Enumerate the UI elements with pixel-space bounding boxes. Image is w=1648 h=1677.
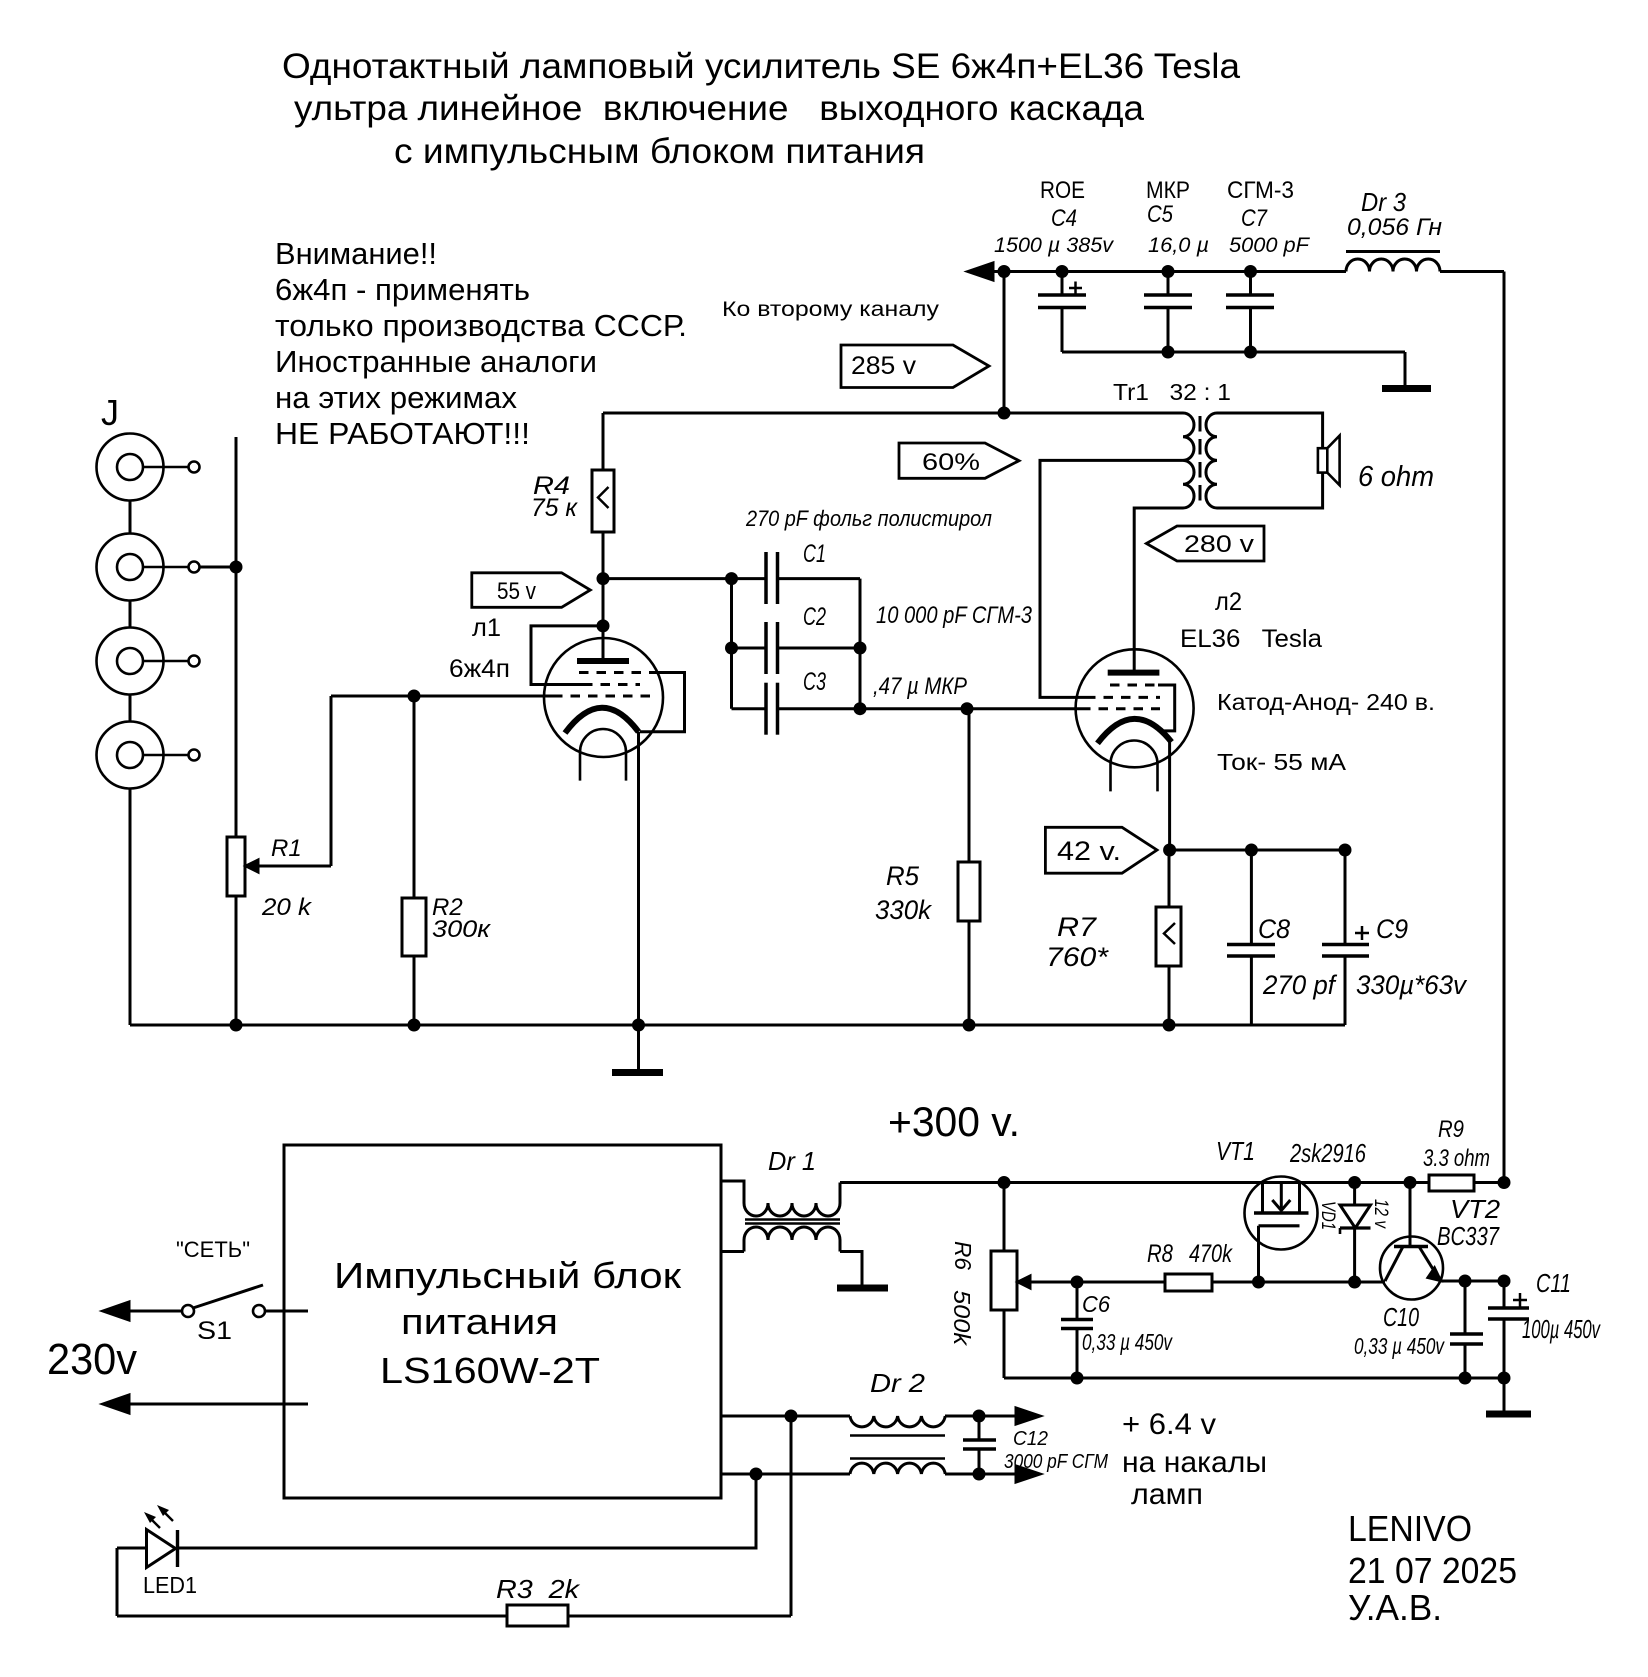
svg-text:12 v: 12 v	[1370, 1199, 1391, 1229]
svg-text:230v: 230v	[47, 1335, 137, 1384]
wire: VT2 emitter to output rail	[1440, 1280, 1504, 1283]
svg-text:C3: C3	[803, 668, 826, 696]
svg-text:R6: R6	[950, 1241, 976, 1270]
wire: right rail through C11	[1503, 1281, 1506, 1308]
svg-text:ультра линейное включение в: ультра линейное включение выходного каск…	[294, 89, 1145, 128]
svg-text:330k: 330k	[875, 895, 932, 925]
svg-text:C1: C1	[803, 540, 826, 568]
svg-text:LS160W-2T: LS160W-2T	[380, 1350, 600, 1391]
svg-text:C10: C10	[1383, 1302, 1419, 1332]
heater	[580, 729, 626, 781]
wire: filter ground bus	[1062, 351, 1405, 354]
inductor Dr 2	[721, 1368, 1040, 1482]
svg-text:3000 pF СГМ: 3000 pF СГМ	[1004, 1451, 1108, 1473]
svg-text:R8: R8	[1147, 1240, 1173, 1268]
junction: g2 strap tap	[597, 619, 610, 632]
transistor VT2 BC337	[1380, 1183, 1501, 1300]
Dr2 bottom winding	[850, 1463, 945, 1474]
wire: PSU bottom out	[721, 1250, 744, 1253]
svg-text:НЕ РАБОТАЮТ!!!: НЕ РАБОТАЮТ!!!	[275, 416, 530, 451]
svg-text:только производства СССР.: только производства СССР.	[275, 308, 687, 343]
Tr1 primary winding	[1183, 413, 1194, 508]
svg-text:VT1: VT1	[1216, 1136, 1255, 1166]
wire: ultralinear 60% tap	[1040, 460, 1183, 697]
wire: right vertical +300v rail (top)	[1503, 272, 1506, 1183]
wire: primary bottom to anode of л2	[1134, 508, 1183, 673]
cathode arc	[565, 708, 639, 733]
svg-text:Ток- 55 мА: Ток- 55 мА	[1217, 749, 1347, 775]
capacitor C3	[732, 668, 861, 735]
grid g3 (dashed)	[1110, 684, 1160, 687]
anode plate bar	[1108, 670, 1160, 676]
Dr1 core	[745, 1218, 840, 1220]
inductor Dr 3	[1346, 187, 1442, 272]
svg-text:с импульсным блоком питания: с импульсным блоком питания	[394, 132, 925, 171]
svg-text:10 000 pF СГМ-3: 10 000 pF СГМ-3	[876, 602, 1033, 629]
svg-text:LENIVO: LENIVO	[1348, 1508, 1472, 1549]
svg-text:C4: C4	[1051, 205, 1077, 232]
grid g1 (dashed)	[553, 695, 651, 698]
junction	[998, 265, 1011, 278]
title	[282, 47, 1241, 171]
wire: input bus vertical	[235, 437, 238, 1025]
wire: Dr3 output to right rail	[1440, 270, 1504, 273]
node flag: 60%	[899, 443, 1019, 478]
transistor VT1 2sk2916	[1216, 1136, 1366, 1282]
tube л1 6ж4п	[449, 614, 685, 1025]
svg-text:л2: л2	[1215, 588, 1242, 616]
wire: common ground rail	[130, 1024, 1345, 1027]
svg-text:Катод-Анод- 240 в.: Катод-Анод- 240 в.	[1217, 689, 1435, 715]
wire: S1 to PSU	[265, 1310, 308, 1313]
svg-text:330µ*63v: 330µ*63v	[1356, 970, 1467, 1000]
svg-text:500k: 500k	[949, 1290, 975, 1347]
zener diode VD1 12v	[1317, 1183, 1391, 1283]
wire: g3 to cathode tab	[1158, 685, 1175, 731]
resistor R4	[531, 413, 614, 579]
wire: 285v rail down to transformer node	[1003, 272, 1006, 414]
ground	[1382, 385, 1431, 392]
resistor R5	[875, 709, 980, 1025]
svg-text:СГМ-3: СГМ-3	[1227, 177, 1294, 204]
svg-text:C6: C6	[1082, 1291, 1110, 1317]
svg-text:60%: 60%	[922, 449, 980, 476]
svg-text:У.А.В.: У.А.В.	[1348, 1587, 1442, 1628]
wire: J2 hot to input bus	[200, 566, 237, 569]
capacitor C10	[1354, 1281, 1483, 1378]
svg-text:J: J	[101, 392, 119, 433]
svg-text:5000 pF: 5000 pF	[1229, 234, 1310, 257]
svg-text:S1: S1	[197, 1317, 232, 1345]
wire: heater feed B from PSU	[721, 1473, 850, 1476]
svg-text:VD1: VD1	[1317, 1201, 1338, 1230]
switch S1	[182, 1285, 265, 1345]
capacitor C6	[1061, 1282, 1173, 1378]
svg-text:21 07 2025: 21 07 2025	[1348, 1550, 1517, 1591]
capacitor C9	[1322, 850, 1467, 1025]
node flag: 280 v	[1146, 526, 1264, 561]
svg-text:"СЕТЬ": "СЕТЬ"	[176, 1237, 250, 1262]
wire: heater out B with arrow	[945, 1473, 1020, 1476]
svg-text:Однотактный ламповый усилитель: Однотактный ламповый усилитель SE 6ж4п+E…	[282, 47, 1241, 86]
resistor R7	[1046, 850, 1181, 1025]
svg-text:МКР: МКР	[1146, 177, 1190, 204]
wire: heater feed A from PSU	[721, 1415, 850, 1418]
grid g3 (dashed)	[579, 671, 651, 674]
LED LED1	[117, 1505, 197, 1598]
ground	[612, 1025, 663, 1073]
wire: mains feed 1 with arrow	[103, 1302, 129, 1320]
node: anode of л1	[597, 572, 610, 585]
inductor Dr 1	[721, 1146, 888, 1288]
signature block	[1348, 1508, 1517, 1628]
wire: heater out A with arrow	[945, 1415, 1020, 1418]
svg-text:R1: R1	[271, 835, 302, 862]
svg-text:470k: 470k	[1189, 1240, 1233, 1268]
grid g2 (dashed)	[583, 683, 640, 686]
wire: mains feed 2 with arrow	[103, 1395, 129, 1413]
wire: PSU top out	[721, 1181, 744, 1203]
svg-text:л1: л1	[472, 614, 501, 642]
svg-text:ROE: ROE	[1040, 177, 1085, 204]
svg-text:16,0 µ: 16,0 µ	[1148, 234, 1209, 257]
svg-text:6ж4п: 6ж4п	[449, 655, 510, 683]
svg-text:0,056 Гн: 0,056 Гн	[1347, 214, 1442, 241]
anode plate bar	[577, 658, 629, 664]
svg-text:6 ohm: 6 ohm	[1358, 461, 1434, 493]
capacitor C7	[1226, 177, 1310, 359]
Dr1 top winding	[744, 1203, 840, 1216]
svg-text:Tr1 32 : 1: Tr1 32 : 1	[1113, 379, 1231, 405]
heater	[1111, 740, 1158, 791]
wire: triode-strap g2 to anode	[531, 626, 603, 685]
grid g2 (dashed)	[1086, 696, 1160, 699]
svg-text:55 v: 55 v	[497, 578, 536, 605]
capacitor C11	[1488, 1268, 1601, 1344]
svg-text:1500 µ 385v: 1500 µ 385v	[994, 234, 1115, 257]
svg-text:6ж4п - применять: 6ж4п - применять	[275, 272, 530, 307]
wire: grid of tube л1	[331, 695, 553, 698]
svg-text:C12: C12	[1013, 1428, 1048, 1450]
power supply module LS160W-2T	[284, 1145, 721, 1498]
wire: cathode of л2 down	[1168, 740, 1171, 850]
svg-text:C2: C2	[803, 603, 826, 631]
wire: secondary loop to speaker	[1217, 413, 1323, 508]
svg-text:Dr 3: Dr 3	[1361, 187, 1406, 217]
svg-text:300к: 300к	[432, 916, 492, 943]
potentiometer R6	[949, 1183, 1165, 1379]
Dr2 top winding	[850, 1416, 945, 1427]
svg-text:20 k: 20 k	[261, 894, 313, 921]
svg-text:270 pf: 270 pf	[1262, 970, 1337, 1000]
wire: 285v rail	[991, 270, 1346, 273]
svg-text:VT2: VT2	[1450, 1194, 1501, 1224]
wire: g3 to cathode tab	[640, 673, 685, 732]
svg-text:EL36 Tesla: EL36 Tesla	[1180, 625, 1322, 653]
resistor R3 2k	[117, 1574, 791, 1626]
capacitor C8	[1227, 850, 1337, 1025]
svg-text:3.3 ohm: 3.3 ohm	[1423, 1145, 1490, 1172]
capacitor C1	[725, 540, 860, 709]
wire: LED to heater feed B	[178, 1474, 757, 1548]
svg-text:Внимание!!: Внимание!!	[275, 236, 437, 271]
svg-text:2sk2916: 2sk2916	[1289, 1138, 1366, 1168]
grid g1 (dashed)	[1081, 707, 1160, 710]
Dr1 bottom winding	[744, 1227, 840, 1240]
svg-text:Иностранные аналоги: Иностранные аналоги	[275, 344, 597, 379]
Tr1 core	[1199, 416, 1202, 505]
wire: output bottom bus	[1004, 1377, 1504, 1380]
wire: LED return leg	[116, 1548, 119, 1616]
speaker	[1318, 436, 1340, 486]
svg-text:42 v.: 42 v.	[1057, 836, 1121, 866]
wire: anode lead into tube	[602, 579, 605, 661]
warning note	[275, 236, 687, 451]
wire: Dr1 return to ground	[840, 1252, 862, 1287]
node flag: 55 v	[472, 573, 591, 608]
ground	[1486, 1411, 1531, 1418]
node flag: 285 v	[841, 345, 989, 388]
resistor R9	[1423, 1116, 1490, 1191]
svg-text:285 v: 285 v	[851, 352, 917, 380]
svg-text:R9: R9	[1438, 1116, 1464, 1143]
wire: +300v horizontal rail	[840, 1181, 1504, 1184]
svg-text:280 v: 280 v	[1184, 531, 1254, 558]
jack J4	[97, 722, 200, 789]
wire: cathode to ground rail	[637, 732, 640, 1025]
capacitor C2	[725, 603, 867, 674]
Dr2 core	[850, 1434, 945, 1437]
svg-text:100µ 450v: 100µ 450v	[1522, 1314, 1601, 1344]
wire: jack shells chained	[129, 501, 132, 1026]
wire: R3 to heater feed A	[790, 1416, 793, 1616]
cathode arc	[1098, 719, 1172, 743]
svg-text:760*: 760*	[1046, 942, 1110, 972]
svg-text:Dr 1: Dr 1	[768, 1146, 816, 1176]
wire: coupling caps right bus	[859, 579, 862, 709]
resistor R2	[402, 696, 492, 1025]
svg-text:+300 v.: +300 v.	[888, 1098, 1020, 1145]
jack J3	[97, 628, 200, 695]
svg-text:,47 µ МКР: ,47 µ МКР	[873, 673, 967, 700]
svg-text:BC337: BC337	[1437, 1221, 1500, 1251]
svg-text:Импульсный блок: Импульсный блок	[334, 1255, 681, 1296]
wire: anode rail to transformer	[603, 412, 1183, 415]
svg-text:270 pF фольг полистирол: 270 pF фольг полистирол	[745, 506, 992, 531]
potentiometer R1	[227, 696, 331, 921]
svg-text:Ко второму каналу: Ко второму каналу	[722, 298, 940, 321]
svg-text:C5: C5	[1147, 201, 1174, 228]
svg-text:75 к: 75 к	[531, 494, 578, 522]
svg-text:на этих режимах: на этих режимах	[275, 380, 517, 415]
capacitor C4	[994, 177, 1115, 352]
svg-text:R7: R7	[1057, 912, 1097, 942]
svg-text:ламп: ламп	[1131, 1478, 1203, 1511]
node: cathode of л2	[1163, 844, 1176, 857]
wire: anode to coupling caps	[603, 577, 732, 580]
svg-text:0,33 µ 450v: 0,33 µ 450v	[1082, 1329, 1173, 1355]
node: 285v rail arrow to second channel	[968, 263, 993, 280]
node flag: 42 v.	[1045, 827, 1157, 873]
capacitor C12	[963, 1416, 1108, 1474]
svg-text:LED1: LED1	[143, 1572, 197, 1598]
svg-text:на накалы: на накалы	[1122, 1446, 1267, 1479]
svg-text:C8: C8	[1258, 914, 1290, 944]
jack J2	[97, 534, 200, 601]
Tr1 secondary winding	[1206, 413, 1217, 508]
ground	[837, 1285, 888, 1292]
svg-text:R5: R5	[886, 861, 920, 891]
node: +6.4v heater supply	[1122, 1408, 1267, 1511]
svg-text:Dr 2: Dr 2	[870, 1368, 926, 1398]
tube л2 EL36	[1076, 588, 1322, 850]
capacitor C5	[1144, 177, 1209, 359]
wire: Dr1 out to +300 rail	[839, 1183, 842, 1204]
svg-text:C7: C7	[1241, 205, 1268, 232]
svg-text:C11: C11	[1536, 1268, 1571, 1298]
wire: cathode node to C8 C9	[1170, 849, 1345, 852]
svg-text:0,33 µ 450v: 0,33 µ 450v	[1354, 1333, 1445, 1359]
wire: grid of tube л2	[860, 707, 1081, 710]
jack J1	[97, 434, 200, 501]
resistor R8	[1147, 1240, 1385, 1291]
svg-text:+ 6.4 v: + 6.4 v	[1122, 1408, 1216, 1441]
svg-text:питания: питания	[401, 1301, 558, 1342]
svg-text:R3 2k: R3 2k	[496, 1574, 581, 1604]
svg-text:C9: C9	[1376, 914, 1408, 944]
